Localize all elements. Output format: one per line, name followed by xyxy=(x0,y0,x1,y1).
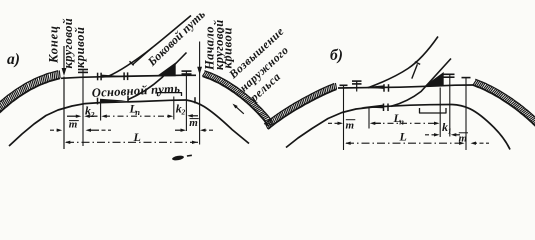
svg-text:кривой: кривой xyxy=(73,27,87,68)
svg-text:2: 2 xyxy=(181,108,186,117)
svg-text:L: L xyxy=(133,130,141,144)
svg-text:а): а) xyxy=(7,51,20,68)
svg-text:Конец: Конец xyxy=(47,25,61,64)
svg-text:п: п xyxy=(135,107,140,117)
svg-text:1: 1 xyxy=(448,126,452,135)
svg-text:m: m xyxy=(346,120,355,132)
svg-text:m: m xyxy=(459,133,468,145)
svg-text:кривой: кривой xyxy=(221,27,235,68)
svg-text:2: 2 xyxy=(90,110,95,119)
svg-text:б): б) xyxy=(330,47,343,64)
svg-text:п: п xyxy=(399,116,404,126)
svg-text:L: L xyxy=(399,130,407,144)
